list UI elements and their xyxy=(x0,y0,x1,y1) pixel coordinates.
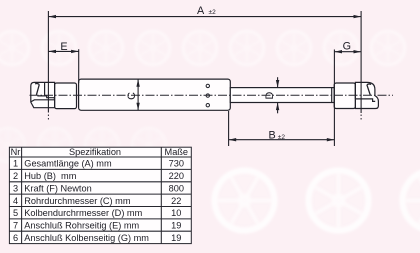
tube mounting hole top xyxy=(206,84,209,87)
tube mounting hole middle xyxy=(206,94,209,97)
svg-text:A: A xyxy=(197,5,205,17)
arrow C top xyxy=(136,79,139,87)
svg-text:Nr: Nr xyxy=(11,147,21,157)
right eyelet block xyxy=(355,82,378,108)
arrow D top xyxy=(276,80,279,88)
svg-text:220: 220 xyxy=(169,171,184,181)
extension line B left xyxy=(228,111,230,146)
svg-text:±2: ±2 xyxy=(209,9,217,16)
dimension line B xyxy=(229,139,335,141)
svg-text:E: E xyxy=(60,41,67,53)
svg-text:D: D xyxy=(264,92,276,100)
dimension line G xyxy=(334,51,361,53)
svg-text:3: 3 xyxy=(13,183,18,193)
arrow E left xyxy=(48,50,56,53)
horizontal centerline xyxy=(30,94,394,96)
arrow E right xyxy=(71,50,79,53)
dimension line D lower xyxy=(277,103,279,114)
table frame xyxy=(9,147,191,243)
svg-text:2: 2 xyxy=(13,171,18,181)
arrow G left xyxy=(334,50,342,53)
arrow A right xyxy=(354,15,362,18)
svg-text:6: 6 xyxy=(13,233,18,243)
svg-text:±2: ±2 xyxy=(278,134,286,141)
watermark wheel row top xyxy=(0,31,405,65)
arrow A left xyxy=(48,15,56,18)
specification table xyxy=(9,147,191,243)
arrow D bottom xyxy=(276,103,279,111)
svg-text:10: 10 xyxy=(171,208,181,218)
svg-text:Hub (B) mm: Hub (B) mm xyxy=(24,171,76,181)
right adapter sleeve xyxy=(334,83,355,109)
svg-text:Rohrdurchmesser (C) mm: Rohrdurchmesser (C) mm xyxy=(24,196,131,206)
right eyelet centerline lower dot xyxy=(360,115,362,120)
svg-text:800: 800 xyxy=(169,183,184,193)
svg-text:Anschluß Kolbenseitig (G) mm: Anschluß Kolbenseitig (G) mm xyxy=(24,233,149,243)
svg-text:G: G xyxy=(343,40,351,52)
right eyelet inner bracket xyxy=(355,82,375,101)
right eyelet blade diagonal xyxy=(367,84,371,95)
piston rod xyxy=(230,88,334,103)
svg-text:5: 5 xyxy=(13,208,18,218)
watermark wheel row bottom xyxy=(27,160,420,242)
tube mounting hole bottom xyxy=(206,104,209,107)
svg-text:Maße: Maße xyxy=(165,147,189,157)
svg-text:1: 1 xyxy=(13,159,18,169)
rod end cap line xyxy=(331,88,333,103)
dimension line D upper xyxy=(277,77,279,87)
svg-text:C: C xyxy=(126,92,138,100)
cylinder tube body xyxy=(79,79,231,110)
dimension line C xyxy=(137,79,139,110)
extension line right (A) through right eyelet center xyxy=(360,11,362,113)
svg-text:Kraft (F) Newton: Kraft (F) Newton xyxy=(24,183,91,193)
svg-text:22: 22 xyxy=(171,196,181,206)
svg-text:Spezifikation: Spezifikation xyxy=(69,147,121,157)
svg-text:Kolbendurchrmesser (D) mm: Kolbendurchrmesser (D) mm xyxy=(24,208,142,218)
svg-text:4: 4 xyxy=(13,196,18,206)
extension line left (A) through left eyelet center xyxy=(47,11,49,113)
arrow G right xyxy=(354,50,362,53)
left eyelet inner bracket xyxy=(31,82,55,102)
svg-text:19: 19 xyxy=(171,233,181,243)
svg-text:19: 19 xyxy=(171,221,181,231)
svg-text:7: 7 xyxy=(13,221,18,231)
extension line E right xyxy=(78,49,80,83)
svg-text:Anschluß Rohrseitig (E) mm: Anschluß Rohrseitig (E) mm xyxy=(24,221,139,231)
left adapter sleeve xyxy=(55,83,77,109)
left eyelet blade diagonal xyxy=(35,84,39,95)
arrow B right xyxy=(327,138,335,141)
left eyelet centerline lower dot xyxy=(47,115,49,120)
left eyelet block xyxy=(31,82,55,107)
svg-text:B: B xyxy=(269,130,276,142)
arrow B left xyxy=(229,138,237,141)
extension line G left / B right xyxy=(333,50,335,147)
dimension line A xyxy=(48,16,361,18)
dimension line E xyxy=(48,50,78,52)
svg-text:730: 730 xyxy=(169,159,184,169)
watermark wheel row middle xyxy=(0,128,166,162)
arrow C bottom xyxy=(136,103,139,111)
table grid lines xyxy=(9,147,191,243)
svg-text:Gesamtlänge (A) mm: Gesamtlänge (A) mm xyxy=(24,159,112,169)
